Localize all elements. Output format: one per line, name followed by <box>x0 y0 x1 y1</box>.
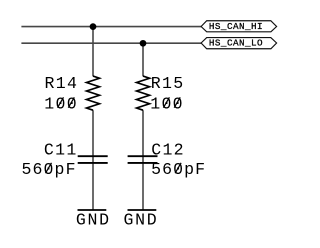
svg-text:GND: GND <box>124 211 157 230</box>
svg-text:560pF: 560pF <box>151 160 205 179</box>
svg-text:C12: C12 <box>151 141 183 160</box>
svg-text:R15: R15 <box>151 74 183 93</box>
svg-text:100: 100 <box>44 94 76 113</box>
svg-text:560pF: 560pF <box>22 160 76 179</box>
svg-text:GND: GND <box>76 211 109 230</box>
svg-text:C11: C11 <box>44 141 76 160</box>
svg-text:R14: R14 <box>45 74 77 93</box>
svg-text:HS_CAN_HI: HS_CAN_HI <box>209 21 263 32</box>
svg-text:100: 100 <box>150 94 182 113</box>
svg-text:HS_CAN_LO: HS_CAN_LO <box>209 38 263 49</box>
